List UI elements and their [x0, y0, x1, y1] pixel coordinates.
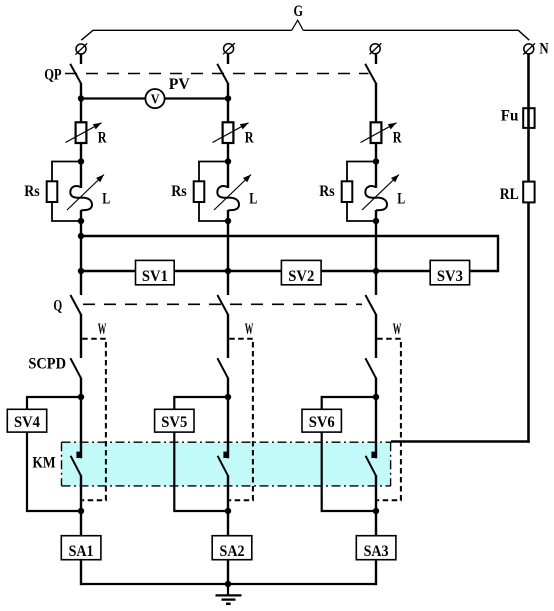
wire Rs branch bottom A	[52, 202, 81, 221]
node A lower bus	[78, 268, 84, 274]
switch QP linkage (dashed)	[65, 73, 369, 75]
wire phase B R to Rs/L	[227, 143, 229, 188]
svg-text:PV: PV	[169, 76, 191, 93]
svg-text:KM: KM	[32, 454, 56, 471]
wire right loop drop	[497, 235, 499, 272]
box W phase C (dashed)	[377, 339, 401, 501]
switch SCPD pole C	[365, 358, 376, 378]
svg-text:Fu: Fu	[501, 107, 519, 124]
wire voltmeter A-B	[81, 97, 228, 99]
box SV6	[302, 409, 341, 432]
contactor KM fixed contact C	[371, 452, 375, 458]
switch Q pole A	[70, 295, 81, 315]
node A at SV4 return	[78, 508, 84, 514]
wire lower bus seg3	[321, 270, 431, 272]
wire SV6 top	[322, 397, 376, 410]
svg-text:Rs: Rs	[24, 183, 39, 200]
inductor L phase C arrow	[362, 175, 399, 211]
resistor Rs phase B	[194, 181, 205, 202]
resistor R phase C arrow	[361, 123, 397, 143]
box SV4	[7, 409, 46, 432]
bus G	[81, 30, 292, 40]
svg-text:SV1: SV1	[142, 268, 168, 285]
svg-text:QP: QP	[44, 67, 62, 84]
svg-text:RL: RL	[500, 186, 519, 203]
wire N to contactor (heavy)	[391, 440, 530, 443]
svg-text:SV4: SV4	[14, 414, 40, 431]
wire phase A SCPD to KM	[80, 378, 82, 458]
box SA3	[356, 536, 396, 560]
svg-text:Rs: Rs	[171, 183, 186, 200]
node B at SV5 return	[225, 508, 231, 514]
wire SV5 top	[174, 397, 228, 410]
resistor RL	[523, 182, 534, 203]
resistor Rs phase C	[342, 181, 353, 202]
svg-text:N: N	[539, 41, 548, 58]
svg-text:SV5: SV5	[161, 414, 187, 431]
wire Rs branch top A	[52, 162, 81, 183]
wire SA1 to bottom bus	[80, 560, 82, 586]
wire N terminal to Fu	[527, 54, 530, 182]
node B Rs bottom	[225, 218, 231, 224]
node A at SV4 tap	[78, 394, 84, 400]
box SA2	[212, 536, 252, 560]
voltmeter PV	[145, 89, 164, 108]
wire RL to KM band	[527, 202, 530, 442]
contactor KM blade B	[218, 456, 228, 476]
resistor R phase B arrow	[213, 123, 249, 143]
resistor R phase C	[371, 122, 382, 143]
resistor R phase A arrow	[66, 123, 102, 143]
node C Rs top	[373, 158, 379, 164]
wire phase A L to lower section	[80, 210, 82, 295]
contactor KM blade C	[366, 456, 376, 476]
inductor L phase C	[365, 186, 387, 210]
node C Rs bottom	[373, 218, 379, 224]
wire phase A R to Rs/L	[80, 143, 82, 188]
contactor KM blade A	[71, 456, 81, 476]
wire SV6 bottom	[322, 432, 376, 511]
box W phase B (dashed)	[229, 339, 253, 501]
svg-text:L: L	[102, 190, 110, 207]
KM band dash-dot border	[62, 442, 392, 486]
box SA1	[61, 536, 101, 560]
svg-text:SA1: SA1	[69, 543, 94, 560]
switch QP pole C	[365, 64, 376, 84]
KM contactor highlight band	[62, 443, 391, 486]
svg-text:W: W	[98, 321, 107, 338]
node A Rs bottom	[78, 218, 84, 224]
node B Rs top	[225, 158, 231, 164]
wire upper bus	[81, 235, 498, 237]
inductor L phase B	[217, 186, 239, 210]
terminal phase B	[223, 43, 235, 54]
resistor R phase A	[76, 122, 87, 143]
wire phase C L to lower section	[375, 210, 377, 295]
svg-text:L: L	[397, 190, 405, 207]
node B-PV	[225, 95, 231, 101]
svg-text:R: R	[98, 130, 107, 147]
node B lower bus	[225, 268, 231, 274]
wire Rs branch top B	[199, 162, 228, 183]
svg-text:R: R	[245, 130, 254, 147]
wire Rs branch bottom B	[199, 202, 228, 221]
wire bottom bus	[81, 583, 376, 585]
svg-text:SV2: SV2	[288, 268, 314, 285]
box SV3	[430, 260, 469, 284]
svg-text:SCPD: SCPD	[28, 356, 66, 373]
fuse Fu	[523, 108, 534, 128]
box W phase A (dashed)	[82, 339, 106, 501]
wire phase A Q to SCPD	[80, 314, 82, 358]
svg-text:W: W	[245, 321, 254, 338]
wire phase B Q to SCPD	[227, 314, 229, 358]
wire lower bus seg4	[469, 270, 498, 272]
svg-text:SA2: SA2	[220, 543, 245, 560]
svg-text:R: R	[393, 130, 402, 147]
wire phase C QP to R	[375, 83, 377, 123]
svg-text:SV6: SV6	[309, 414, 335, 431]
wire phase A stub below terminal	[80, 54, 82, 64]
box SV5	[155, 409, 194, 432]
switch SCPD pole B	[217, 358, 228, 378]
wire phase C KM to SA	[375, 475, 377, 536]
terminal phase C	[370, 43, 382, 54]
box SV1	[136, 260, 175, 284]
inductor L phase A	[70, 186, 92, 210]
node A-PV	[78, 95, 84, 101]
wire Rs branch bottom C	[347, 202, 376, 221]
switch Q linkage (dashed)	[83, 303, 362, 305]
wire phase A QP to R	[80, 83, 82, 123]
switch Q pole B	[217, 295, 228, 315]
node A Rs top	[78, 158, 84, 164]
wire phase B KM to SA	[227, 475, 229, 536]
svg-text:Q: Q	[53, 297, 62, 314]
wire phase C R to Rs/L	[375, 143, 377, 188]
switch QP pole A	[70, 64, 81, 84]
wire SV4 top	[27, 397, 81, 410]
node C lower bus	[373, 268, 379, 274]
inductor L phase A arrow	[67, 175, 104, 211]
wire lower bus seg2	[174, 270, 282, 272]
wire phase B L to lower section	[227, 210, 229, 295]
node A upper bus	[78, 233, 84, 239]
wire phase B QP to R	[227, 83, 229, 123]
inductor L phase B arrow	[214, 175, 251, 211]
node C at SV6 tap	[373, 394, 379, 400]
svg-text:W: W	[393, 321, 402, 338]
node ground tap	[225, 581, 231, 587]
switch Q pole C	[365, 295, 376, 315]
wire phase B stub below terminal	[227, 53, 229, 64]
svg-text:V: V	[151, 92, 160, 107]
wire phase A KM to SA	[80, 475, 82, 536]
svg-text:SV3: SV3	[437, 268, 463, 285]
wire SV5 bottom	[174, 432, 228, 511]
box SV2	[281, 260, 321, 284]
svg-text:Rs: Rs	[319, 183, 334, 200]
terminal N	[523, 43, 535, 54]
node C at SV6 return	[373, 508, 379, 514]
svg-text:SA3: SA3	[364, 543, 389, 560]
wire SV4 bottom	[27, 432, 81, 511]
switch SCPD pole A	[70, 358, 81, 378]
switch QP pole B	[217, 64, 228, 84]
svg-text:L: L	[249, 190, 257, 207]
wire phase C Q to SCPD	[375, 314, 377, 358]
ground	[216, 584, 242, 604]
node B at SV5 tap	[225, 394, 231, 400]
wire phase B SCPD to KM	[227, 378, 229, 458]
wire SA3 to bottom bus	[375, 560, 377, 586]
terminal phase A	[75, 43, 87, 54]
wire phase C stub below terminal	[375, 54, 377, 65]
wire phase C SCPD to KM	[375, 378, 377, 458]
resistor Rs phase A	[47, 181, 58, 202]
label G lead mark	[292, 20, 304, 30]
resistor R phase B	[223, 122, 234, 143]
wire Rs branch top C	[347, 162, 376, 183]
svg-text:G: G	[294, 3, 304, 20]
contactor KM fixed contact B	[223, 452, 227, 458]
contactor KM fixed contact A	[76, 452, 80, 458]
wire lower bus seg1	[81, 270, 136, 272]
wire SA2 to bottom bus	[227, 560, 229, 586]
